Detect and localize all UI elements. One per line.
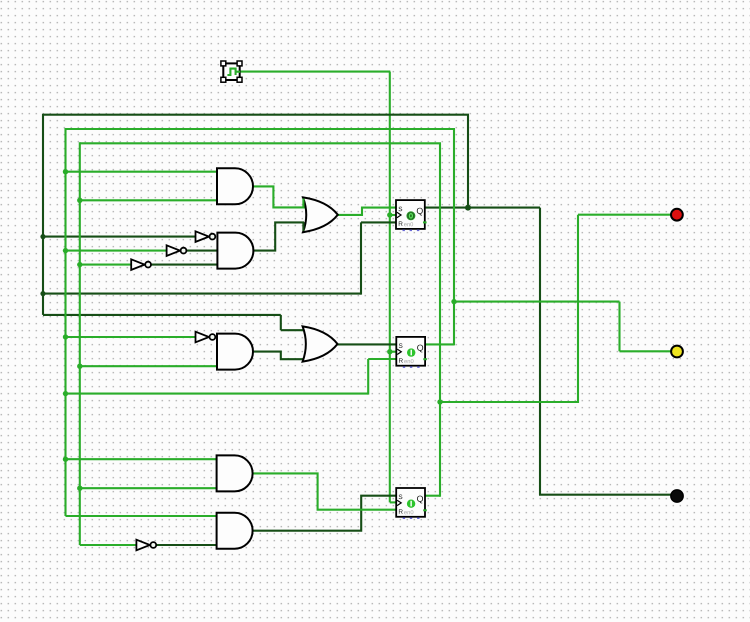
svg-text:en0: en0 <box>404 359 414 365</box>
wire into U1 R input <box>361 221 397 223</box>
wire Q3 branch y402 right <box>440 401 578 403</box>
wire Q1 output horizontal to x540 <box>425 207 540 209</box>
wire Q3 left vertical x79.8 <box>79 142 81 545</box>
not-gate V4 <box>196 332 216 343</box>
wire Q3 branch to AND1 input2 <box>80 199 218 201</box>
junction dot x65.5 y337 <box>63 334 68 339</box>
junction dot x65.5 y459.2 <box>63 457 68 462</box>
wire into OR2 top input <box>281 329 305 331</box>
svg-text:S: S <box>398 494 402 501</box>
wire Q2 branch to inverter V2 <box>66 250 167 252</box>
svg-text:en0: en0 <box>404 222 414 228</box>
wire Q3 top horizontal y143.3 <box>80 142 441 144</box>
LED black D3 <box>671 490 683 502</box>
junction dot x65.5 y171.7 <box>63 169 68 174</box>
wire vertical x578 up <box>577 215 579 403</box>
wire Q2 branch to AND1 input1 <box>66 171 219 173</box>
wire OR2 output to S2 <box>338 343 397 345</box>
wire inverter V3 output <box>150 264 218 266</box>
not-gate V3 <box>131 259 151 270</box>
junction dot x43 y293.6 <box>40 291 45 296</box>
wire Q3 branch to AND4 input2 <box>80 487 218 489</box>
junction dot x65.5 y250.6 <box>63 248 68 253</box>
wire clock stub into U3 clk <box>390 501 397 503</box>
sr-latch U2 <box>396 337 427 368</box>
wire Q2 left vertical x65.5 <box>64 128 66 516</box>
not-gate V2 <box>167 245 187 256</box>
wire Q2 branch y301.6 right <box>454 301 620 303</box>
junction dot x43 y236.6 <box>40 234 45 239</box>
wire vertical x619.5 down <box>618 302 620 352</box>
wire AND1 output step <box>253 186 305 207</box>
svg-text:S: S <box>398 343 402 350</box>
junction dot x468 y207.6 <box>465 205 471 211</box>
not-gate V5 <box>136 540 156 551</box>
wire to yellow LED <box>620 350 672 352</box>
svg-text:Q: Q <box>417 494 424 504</box>
wire AND3 output step <box>253 352 306 360</box>
wire to red LED <box>578 214 671 216</box>
wire Q2 branch to AND4 input1 <box>66 458 219 460</box>
wire Q2 vertical x454 up <box>453 129 455 345</box>
wire Q3 vertical x440 up <box>439 143 441 496</box>
wire vertical x368.2 up to R2 <box>367 359 369 395</box>
wire clock stub into U2 clk <box>389 351 397 353</box>
wire vertical x280.8 down to OR2 input <box>280 315 282 330</box>
and-gate A4 <box>217 455 253 491</box>
svg-text:R: R <box>398 221 403 228</box>
svg-text:en0: en0 <box>404 510 414 516</box>
wire inverter V2 output <box>186 250 218 252</box>
junction dot x79.8 y264.6 <box>77 262 82 267</box>
wire Q1 branch y314.9 <box>43 314 281 316</box>
wire Q1 top horizontal y114.7 <box>43 114 469 116</box>
and-gate A1 <box>217 168 253 204</box>
or-gate O2 <box>303 326 338 361</box>
wire Q1 left vertical x43 <box>42 114 44 315</box>
junction dot clock at U1 <box>387 212 392 217</box>
wire vertical x361 up to R1 <box>360 222 362 294</box>
wire into U2 R input <box>368 358 396 360</box>
wire Q1 branch y293.6 <box>43 293 361 295</box>
svg-text:Q: Q <box>416 206 423 216</box>
svg-text:Q: Q <box>417 343 424 353</box>
junction dot x454 y301.6 <box>451 299 456 304</box>
wire Q3 branch to inverter V3 <box>80 264 131 266</box>
wire Q1 horizontal to black LED <box>539 494 671 496</box>
wire Q1 vertical x540 down <box>539 208 541 495</box>
junction dot x65.5 y393.6 <box>63 391 68 396</box>
svg-text:R: R <box>398 509 403 516</box>
and-gate A5 <box>217 513 253 549</box>
svg-text:S: S <box>398 206 402 213</box>
LED yellow D2 <box>671 346 683 358</box>
wire clock vertical x390 down to latch U3 <box>389 72 391 503</box>
wire Q1 vertical x468 up <box>467 115 469 209</box>
wire Q2 branch y393.6 to R2 <box>66 393 369 395</box>
wire Q2 top horizontal y129 <box>66 128 456 130</box>
sr-latch U1 <box>396 200 427 231</box>
junction dot x440 y402 <box>437 399 442 404</box>
sr-latch U3 <box>396 488 427 519</box>
not-gate V1 <box>196 231 216 242</box>
LED red D1 <box>671 209 683 221</box>
clock CLK <box>221 61 242 82</box>
wire AND5 output to S3 <box>253 496 397 531</box>
wire OR1 output to S1 <box>338 208 397 215</box>
wire Q2 branch to inverter V4 <box>66 336 197 338</box>
wire inverter V5 output <box>156 544 218 546</box>
wire clock horizontal from clock to x390 <box>240 71 390 73</box>
junction dot x79.8 y488.2 <box>77 486 82 491</box>
or-gate O1 input stub green <box>302 199 304 208</box>
wire Q3 branch to inverter V5 <box>80 544 137 546</box>
or-gate O1 input stub dark <box>302 222 304 231</box>
wire AND4 output to R3 <box>253 473 397 509</box>
or-gate O1 <box>303 197 338 232</box>
wire Q1 branch to inverter V1 <box>43 236 197 238</box>
junction dot x79.8 y200.3 <box>77 198 82 203</box>
wire clock stub into U1 clk <box>389 214 397 216</box>
wire Q3 output horizontal <box>424 495 440 497</box>
and-gate A2 <box>217 233 253 269</box>
wire Q2 output horizontal <box>425 343 454 345</box>
wire Q2 branch to AND5 input1 <box>66 515 219 517</box>
junction dot x79.8 y366.2 <box>77 364 82 369</box>
svg-text:R: R <box>398 358 403 365</box>
wire AND2 output step <box>253 222 304 250</box>
junction dot clock at U2 <box>387 349 392 354</box>
and-gate A3 <box>217 334 253 370</box>
wire Q3 branch to AND3 input2 <box>80 365 218 367</box>
